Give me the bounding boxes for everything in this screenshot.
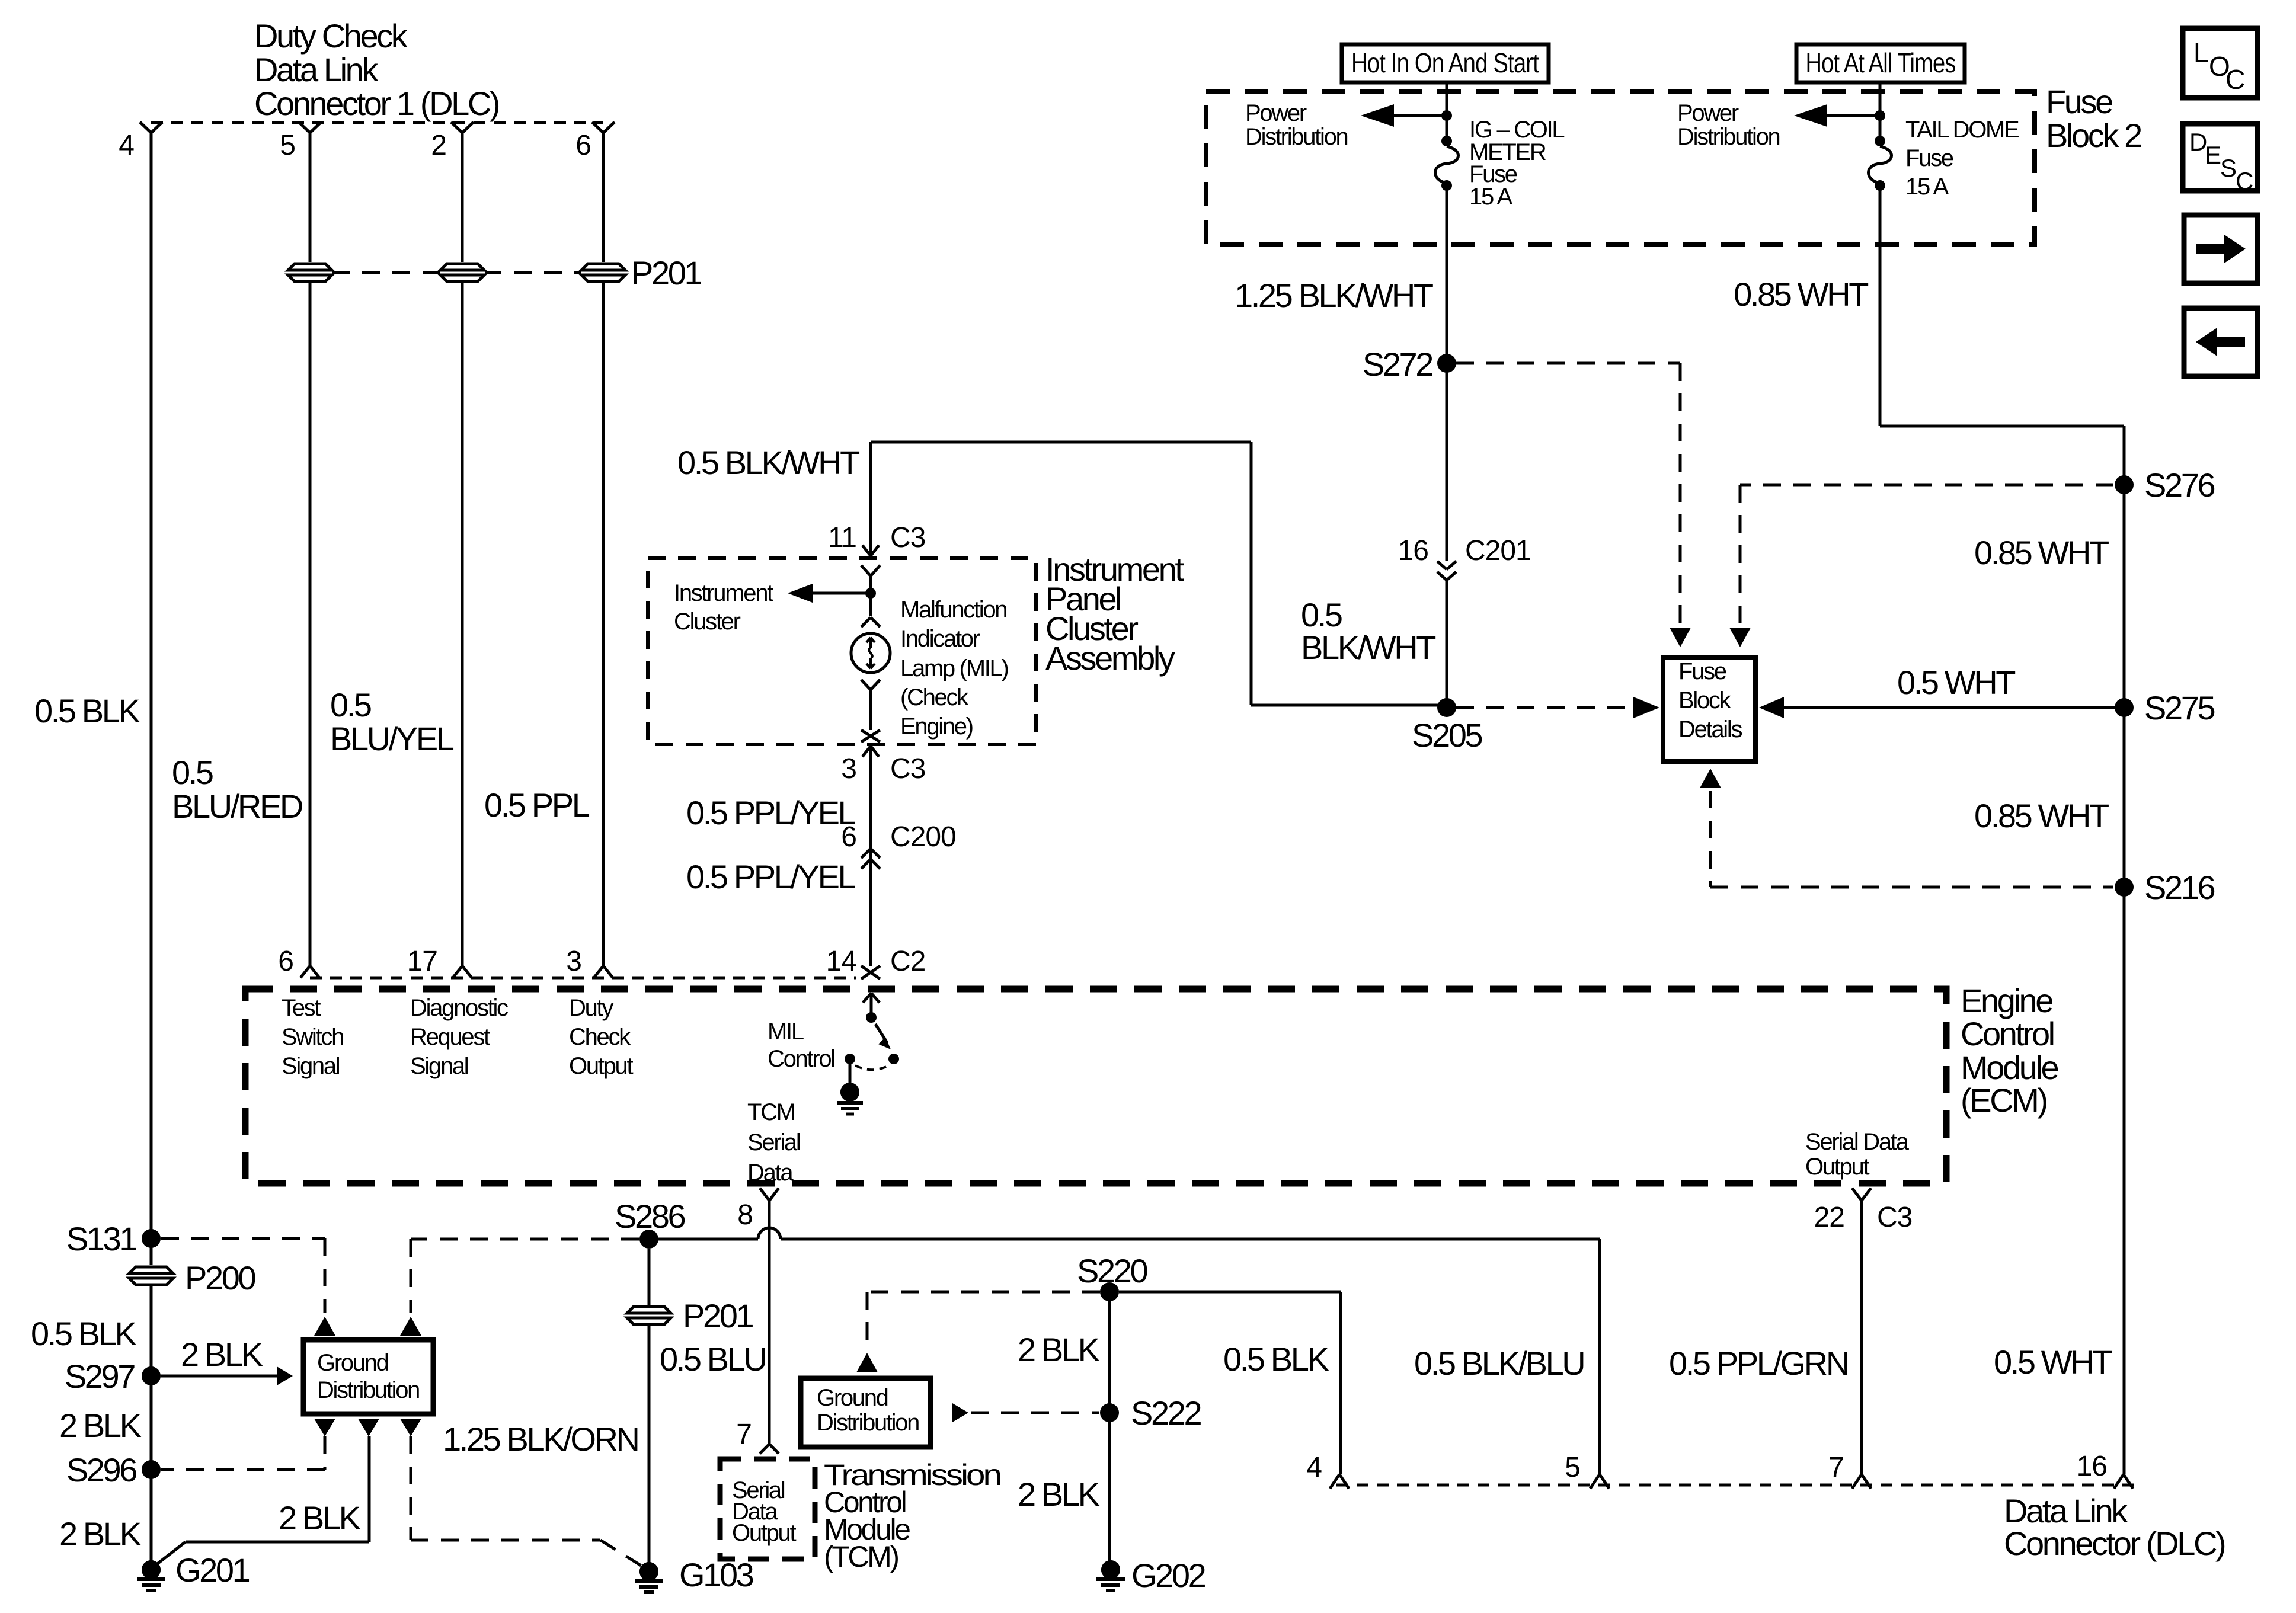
svg-text:7: 7 (736, 1419, 752, 1450)
svg-text:S131: S131 (66, 1220, 136, 1257)
svg-text:Request: Request (410, 1024, 490, 1050)
svg-text:S216: S216 (2144, 869, 2214, 906)
svg-text:TCM: TCM (747, 1099, 795, 1125)
svg-text:3: 3 (566, 946, 581, 977)
svg-text:Block 2: Block 2 (2046, 117, 2141, 154)
svg-text:L: L (2193, 37, 2208, 68)
svg-text:Distribution: Distribution (1677, 124, 1780, 150)
svg-text:4: 4 (119, 130, 134, 161)
svg-text:6: 6 (278, 946, 293, 977)
svg-text:Control: Control (1961, 1015, 2054, 1052)
svg-text:Engine: Engine (1961, 982, 2052, 1019)
svg-text:S272: S272 (1363, 345, 1432, 383)
svg-text:0.5 PPL/YEL: 0.5 PPL/YEL (686, 858, 856, 895)
svg-text:Instrument: Instrument (674, 580, 773, 606)
svg-text:2 BLK: 2 BLK (279, 1499, 361, 1537)
svg-text:S276: S276 (2144, 466, 2214, 504)
svg-text:TAIL DOME: TAIL DOME (1905, 117, 2019, 143)
svg-text:Duty: Duty (569, 995, 613, 1021)
svg-text:Lamp (MIL): Lamp (MIL) (900, 655, 1008, 681)
svg-text:S275: S275 (2144, 689, 2214, 727)
svg-text:22: 22 (1814, 1202, 1844, 1233)
svg-text:2 BLK: 2 BLK (1018, 1476, 1100, 1513)
svg-text:Data: Data (747, 1160, 794, 1186)
svg-text:G202: G202 (1131, 1557, 1205, 1594)
svg-text:P201: P201 (631, 254, 701, 292)
svg-text:0.5 WHT: 0.5 WHT (1994, 1343, 2112, 1381)
svg-text:Connector 1 (DLC): Connector 1 (DLC) (254, 85, 499, 122)
svg-text:2 BLK: 2 BLK (59, 1407, 142, 1444)
svg-text:Block: Block (1678, 687, 1732, 713)
svg-text:16: 16 (2077, 1451, 2107, 1482)
svg-text:Duty Check: Duty Check (254, 17, 408, 55)
svg-text:0.5: 0.5 (330, 686, 371, 724)
svg-text:0.5 BLK/WHT: 0.5 BLK/WHT (677, 444, 859, 481)
svg-text:Test: Test (282, 995, 321, 1021)
svg-text:0.5 BLU: 0.5 BLU (660, 1340, 766, 1378)
svg-text:C3: C3 (890, 522, 925, 553)
svg-text:Power: Power (1245, 100, 1307, 126)
svg-text:17: 17 (407, 946, 437, 977)
svg-text:Fuse: Fuse (1678, 658, 1726, 684)
svg-text:E: E (2205, 141, 2221, 169)
svg-text:0.5 PPL/YEL: 0.5 PPL/YEL (686, 794, 856, 831)
svg-text:G201: G201 (175, 1551, 250, 1589)
svg-text:0.5: 0.5 (1301, 596, 1342, 633)
svg-text:BLU/RED: BLU/RED (172, 788, 302, 825)
svg-text:Hot In On And Start: Hot In On And Start (1351, 47, 1539, 78)
svg-text:2 BLK: 2 BLK (181, 1336, 263, 1373)
svg-text:Output: Output (732, 1520, 796, 1546)
svg-text:0.5 BLK: 0.5 BLK (1223, 1340, 1329, 1378)
svg-text:P201: P201 (683, 1297, 753, 1334)
svg-text:S205: S205 (1412, 716, 1482, 754)
svg-text:0.5 BLK: 0.5 BLK (31, 1315, 137, 1352)
svg-text:G103: G103 (679, 1556, 753, 1593)
svg-text:Details: Details (1678, 716, 1742, 743)
svg-text:(TCM): (TCM) (824, 1540, 898, 1573)
svg-text:BLK/WHT: BLK/WHT (1301, 629, 1435, 666)
svg-text:2 BLK: 2 BLK (59, 1515, 142, 1553)
svg-text:C200: C200 (890, 821, 956, 853)
svg-text:Output: Output (1805, 1154, 1869, 1180)
svg-text:C3: C3 (1877, 1202, 1912, 1233)
svg-text:0.5 BLK/BLU: 0.5 BLK/BLU (1414, 1345, 1584, 1382)
svg-text:Engine): Engine) (900, 713, 973, 740)
svg-text:S222: S222 (1131, 1394, 1201, 1432)
svg-text:Ground: Ground (317, 1350, 388, 1376)
svg-text:MIL: MIL (768, 1019, 804, 1045)
svg-text:Switch: Switch (282, 1024, 343, 1050)
svg-text:0.85 WHT: 0.85 WHT (1734, 276, 1868, 313)
svg-text:C201: C201 (1465, 535, 1531, 567)
svg-text:Cluster: Cluster (674, 609, 741, 635)
svg-text:Malfunction: Malfunction (900, 597, 1006, 623)
svg-text:C2: C2 (890, 946, 925, 977)
svg-text:0.5 WHT: 0.5 WHT (1897, 664, 2015, 701)
svg-text:Distribution: Distribution (1245, 124, 1348, 150)
svg-text:0.5 PPL/GRN: 0.5 PPL/GRN (1669, 1345, 1848, 1382)
svg-text:(ECM): (ECM) (1961, 1081, 2046, 1119)
svg-text:4: 4 (1306, 1452, 1322, 1483)
svg-text:S296: S296 (66, 1451, 136, 1489)
svg-text:5: 5 (1565, 1452, 1580, 1483)
svg-text:S220: S220 (1077, 1252, 1147, 1289)
svg-text:Hot At All Times: Hot At All Times (1806, 47, 1956, 78)
svg-text:Diagnostic: Diagnostic (410, 995, 508, 1021)
svg-text:Module: Module (1961, 1049, 2058, 1086)
svg-text:15 A: 15 A (1469, 184, 1512, 210)
svg-text:7: 7 (1828, 1452, 1844, 1483)
svg-text:Assembly: Assembly (1045, 639, 1175, 677)
svg-text:1.25 BLK/WHT: 1.25 BLK/WHT (1235, 277, 1433, 314)
svg-text:Signal: Signal (282, 1053, 340, 1079)
svg-text:S297: S297 (65, 1358, 135, 1395)
svg-text:Signal: Signal (410, 1053, 468, 1079)
svg-text:Output: Output (569, 1053, 633, 1079)
svg-text:C3: C3 (890, 753, 925, 785)
svg-text:0.85 WHT: 0.85 WHT (1974, 534, 2109, 571)
svg-text:2 BLK: 2 BLK (1018, 1331, 1100, 1368)
svg-text:Distribution: Distribution (817, 1410, 919, 1436)
svg-text:Serial Data: Serial Data (1805, 1129, 1910, 1155)
svg-text:3: 3 (841, 753, 856, 785)
svg-text:Check: Check (569, 1024, 631, 1050)
svg-text:2: 2 (431, 130, 446, 161)
svg-text:16: 16 (1398, 535, 1428, 567)
svg-text:P200: P200 (185, 1259, 255, 1297)
svg-text:BLU/YEL: BLU/YEL (330, 720, 454, 757)
svg-text:S286: S286 (615, 1198, 685, 1235)
svg-text:Connector (DLC): Connector (DLC) (2004, 1525, 2225, 1562)
svg-text:0.5 PPL: 0.5 PPL (484, 786, 590, 824)
svg-text:Distribution: Distribution (317, 1377, 419, 1403)
svg-text:0.85 WHT: 0.85 WHT (1974, 797, 2109, 834)
svg-text:11: 11 (828, 522, 856, 553)
svg-text:6: 6 (841, 821, 856, 853)
svg-text:Fuse: Fuse (2046, 83, 2112, 120)
svg-text:Data Link: Data Link (254, 51, 379, 88)
svg-text:8: 8 (737, 1199, 753, 1231)
svg-text:5: 5 (280, 130, 295, 161)
svg-text:Control: Control (768, 1046, 834, 1072)
svg-text:Indicator: Indicator (900, 626, 980, 652)
svg-text:Serial: Serial (747, 1129, 800, 1156)
svg-text:1.25 BLK/ORN: 1.25 BLK/ORN (443, 1420, 638, 1458)
svg-text:15 A: 15 A (1905, 174, 1949, 200)
svg-text:Data Link: Data Link (2004, 1492, 2128, 1529)
svg-text:0.5 BLK: 0.5 BLK (34, 692, 140, 729)
svg-text:D: D (2189, 128, 2207, 156)
svg-text:0.5: 0.5 (172, 754, 213, 791)
svg-text:14: 14 (826, 946, 857, 977)
svg-text:S: S (2220, 154, 2236, 182)
svg-text:Ground: Ground (817, 1385, 888, 1411)
svg-text:Fuse: Fuse (1905, 145, 1953, 171)
svg-text:6: 6 (575, 130, 591, 161)
svg-text:Power: Power (1677, 100, 1739, 126)
svg-text:C: C (2225, 64, 2244, 95)
svg-text:(Check: (Check (900, 684, 969, 711)
svg-text:C: C (2236, 167, 2253, 195)
